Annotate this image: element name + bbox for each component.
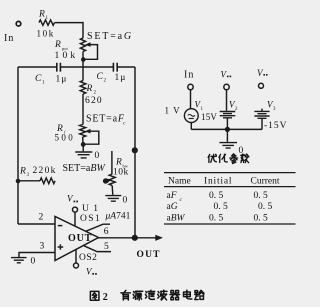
pin 6 output wire bbox=[99, 237, 135, 239]
junction left rail / R3 bbox=[16, 179, 21, 184]
resistor R2 620 bbox=[80, 81, 86, 95]
plus sign pin3 bbox=[58, 244, 64, 250]
svg-text:0. 5: 0. 5 bbox=[258, 202, 273, 212]
svg-text:0. 5: 0. 5 bbox=[209, 191, 224, 201]
wire left rail top / C1 left bbox=[18, 66, 56, 68]
potentiometer Rbw 10k (SET=aBW) bbox=[111, 151, 113, 174]
svg-text:C: C bbox=[97, 72, 104, 82]
svg-text:3: 3 bbox=[40, 242, 45, 252]
ground under RF bbox=[82, 146, 84, 151]
svg-text:In: In bbox=[4, 33, 14, 44]
wire right rail (C2 to output node) bbox=[134, 67, 136, 238]
potentiometer Rpot 10k (SET=aG) bbox=[80, 38, 85, 52]
svg-text:aG: aG bbox=[167, 202, 178, 212]
svg-text:6: 6 bbox=[104, 227, 109, 237]
svg-text:Initial: Initial bbox=[204, 176, 232, 186]
svg-text:220k: 220k bbox=[33, 166, 57, 176]
svg-text:0. 5: 0. 5 bbox=[209, 214, 224, 224]
svg-text:In: In bbox=[184, 70, 194, 81]
svg-text:1μ: 1μ bbox=[115, 73, 127, 83]
junction output node bbox=[132, 235, 138, 241]
svg-text:10k: 10k bbox=[55, 51, 79, 61]
source V1 1V (AC) bbox=[184, 109, 198, 123]
wiper of Rpot bbox=[85, 42, 91, 47]
wire R2 to RF pot bbox=[82, 94, 84, 125]
resistor R1 10k bbox=[39, 20, 55, 25]
wire power bus bbox=[191, 128, 262, 130]
svg-text:-15V: -15V bbox=[264, 121, 288, 131]
wire R1 to pot Rpot top bbox=[55, 23, 84, 38]
ground at pin 3 bbox=[11, 258, 27, 263]
capacitor C2 1u bbox=[113, 63, 117, 72]
svg-text:1μ: 1μ bbox=[56, 75, 68, 85]
pin 3 wire bbox=[19, 253, 55, 258]
svg-text:0: 0 bbox=[95, 151, 100, 161]
svg-text:0. 5: 0. 5 bbox=[254, 214, 269, 224]
wire C1 to C2 bbox=[60, 66, 113, 68]
node In (input port, left) bbox=[16, 21, 21, 26]
svg-text:R: R bbox=[86, 84, 93, 94]
svg-text:R: R bbox=[115, 158, 122, 168]
wire C2 to right rail corner bbox=[117, 66, 135, 68]
svg-text:SET=aG: SET=aG bbox=[87, 31, 133, 42]
svg-text:μA741: μA741 bbox=[105, 211, 131, 221]
svg-text:SET=aBW: SET=aBW bbox=[63, 163, 107, 174]
label 优化参数 (optimization parameters) bbox=[208, 154, 216, 162]
svg-text:Current: Current bbox=[251, 176, 280, 186]
svg-text:2: 2 bbox=[39, 213, 44, 223]
wire to OUT arrow bbox=[135, 237, 158, 239]
svg-text:aBW: aBW bbox=[167, 214, 186, 224]
svg-text:aF: aF bbox=[167, 191, 177, 201]
minus sign pin2 bbox=[58, 225, 63, 227]
svg-text:OS1: OS1 bbox=[80, 214, 101, 224]
ground at power bus bbox=[226, 129, 228, 142]
svg-text:R: R bbox=[19, 167, 26, 177]
svg-text:10k: 10k bbox=[113, 168, 129, 178]
pin 7 V+ terminal bbox=[74, 212, 76, 226]
table rule mid bbox=[164, 186, 296, 188]
op-amp U1 uA741 bbox=[55, 217, 99, 261]
table rule top bbox=[164, 172, 296, 174]
wiper of Rbw bbox=[103, 178, 108, 183]
svg-text:SET=aF: SET=aF bbox=[86, 114, 125, 125]
potentiometer RF 500 (SET=aFc) bbox=[80, 125, 86, 138]
junction RF bottom bbox=[81, 142, 86, 147]
svg-text:0: 0 bbox=[123, 196, 128, 206]
svg-text:OS2: OS2 bbox=[79, 253, 97, 263]
svg-text:0. 5: 0. 5 bbox=[214, 202, 229, 212]
OS1 lead (pin 1) bbox=[86, 224, 110, 231]
svg-text:R: R bbox=[54, 40, 61, 50]
source V3 -15V (battery) bbox=[261, 109, 263, 112]
svg-text:U 1: U 1 bbox=[82, 204, 99, 214]
svg-text:5: 5 bbox=[104, 242, 109, 252]
svg-text:R: R bbox=[38, 10, 45, 20]
junction Rpot bottom bbox=[81, 57, 86, 62]
svg-text:0: 0 bbox=[31, 257, 36, 267]
svg-text:2: 2 bbox=[103, 292, 108, 303]
source V2 15V (battery) bbox=[220, 112, 236, 118]
wire Rpot junction down to C-line bbox=[82, 60, 84, 81]
ground under Rbw bbox=[111, 186, 114, 195]
svg-text:OUT: OUT bbox=[68, 233, 92, 244]
wire V1 to bus bbox=[190, 123, 192, 130]
wire left rail bbox=[17, 67, 19, 224]
resistor R3 220k bbox=[18, 180, 40, 182]
pin 4 V- terminal bbox=[75, 250, 77, 263]
wire V3 to bus bbox=[261, 118, 263, 129]
wire Vcc to V2 bbox=[226, 90, 228, 111]
svg-text:620: 620 bbox=[85, 96, 103, 106]
svg-text:OUT: OUT bbox=[137, 250, 161, 260]
wire V2 to bus junction bbox=[226, 118, 228, 130]
caption: 图2 有源滤波器电路 bbox=[90, 291, 99, 300]
svg-text:C: C bbox=[35, 74, 42, 84]
junction power bus bbox=[225, 127, 230, 132]
svg-text:Name: Name bbox=[168, 176, 191, 186]
svg-text:10k: 10k bbox=[37, 29, 55, 39]
svg-text:1 V: 1 V bbox=[165, 106, 181, 116]
pin 2 wire bbox=[18, 223, 55, 225]
svg-text:0. 5: 0. 5 bbox=[254, 191, 269, 201]
capacitor C1 1u bbox=[57, 63, 61, 72]
svg-text:15V: 15V bbox=[201, 112, 217, 122]
svg-text:500: 500 bbox=[55, 132, 76, 142]
OS2 lead (pin 5) bbox=[84, 246, 111, 252]
wire In terminal to V1 bbox=[190, 90, 192, 109]
wiper of RF bbox=[85, 129, 91, 134]
table rule bottom bbox=[164, 223, 296, 225]
junction right rail upper bbox=[132, 147, 138, 153]
